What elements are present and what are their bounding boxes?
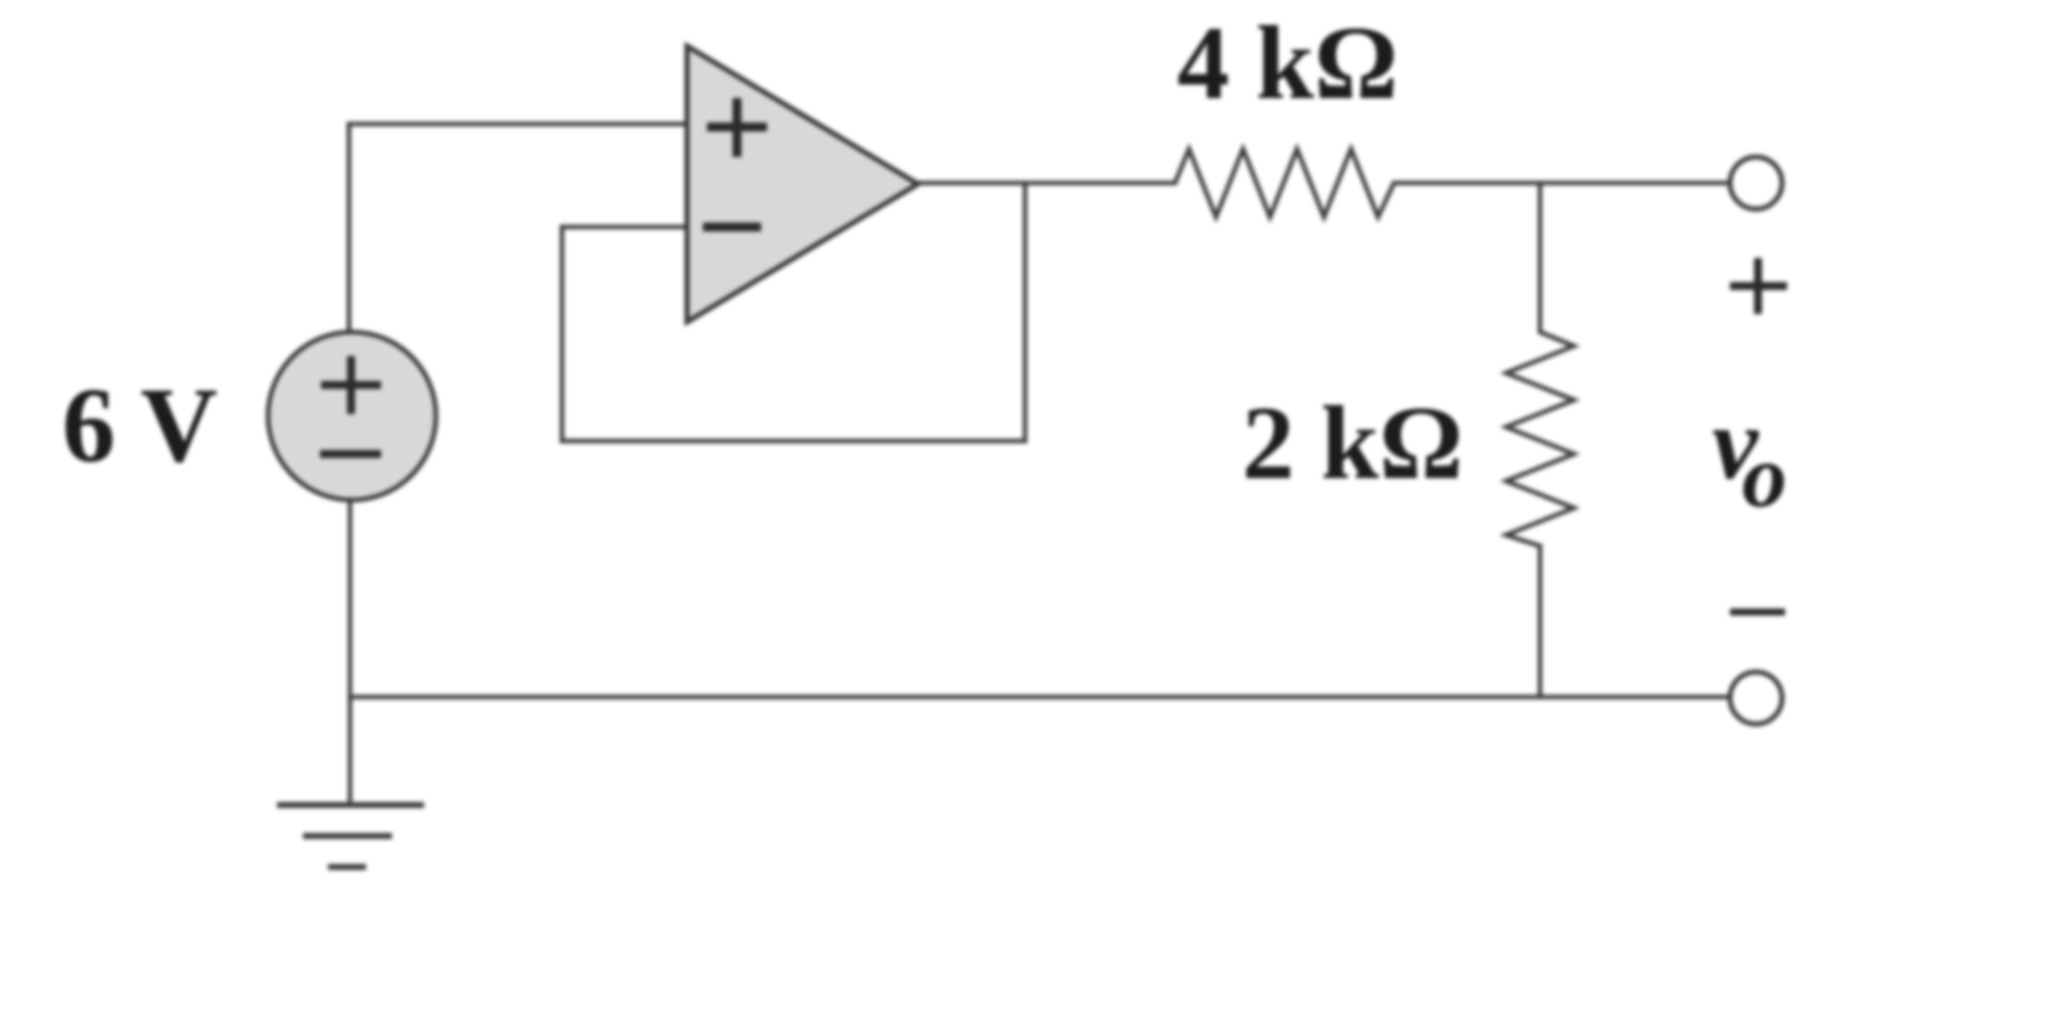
svg-text:o: o bbox=[1742, 427, 1787, 526]
wire op-amp output bbox=[918, 181, 1175, 186]
op-amp inverting marker bbox=[703, 223, 761, 232]
wire left vertical from top wire down to source top bbox=[347, 124, 352, 334]
voltage source V1 bbox=[268, 332, 436, 500]
wire from R1 to top terminal bbox=[1394, 181, 1732, 186]
wire bottom rail bbox=[350, 695, 1732, 700]
svg-text:2 kΩ: 2 kΩ bbox=[1242, 384, 1463, 501]
op-amp noninverting marker bbox=[707, 98, 767, 157]
svg-text:4 kΩ: 4 kΩ bbox=[1177, 4, 1398, 121]
label minus output bbox=[1730, 609, 1785, 616]
wire top from source to op-amp noninverting input bbox=[349, 122, 687, 127]
resistor R2 2kOhm bbox=[1506, 332, 1574, 546]
wire source bottom down to ground bbox=[348, 498, 353, 804]
plus sign inside source bbox=[321, 356, 381, 414]
resistor R1 4kOhm bbox=[1175, 149, 1394, 217]
wire feedback bottom horizontal bbox=[562, 439, 1025, 444]
terminal top (+) bbox=[1730, 157, 1782, 209]
terminal bottom (-) bbox=[1730, 672, 1782, 724]
wire from R2 bottom to bottom rail bbox=[1538, 546, 1543, 697]
wire feedback right vertical bbox=[1023, 183, 1028, 441]
svg-text:6 V: 6 V bbox=[62, 367, 218, 485]
wire from top node down to R2 bbox=[1538, 183, 1543, 332]
ground bbox=[277, 805, 424, 867]
wire inverting input bbox=[562, 225, 687, 230]
op-amp U1 bbox=[687, 46, 918, 322]
label plus output bbox=[1730, 258, 1787, 314]
minus sign inside source bbox=[320, 450, 381, 458]
wire feedback left vertical bbox=[560, 227, 565, 441]
